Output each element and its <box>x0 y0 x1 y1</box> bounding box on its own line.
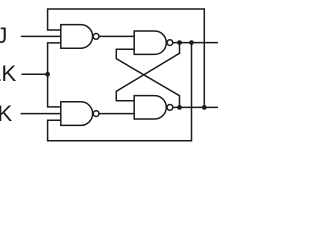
nand-gate G2 output bubble <box>93 111 99 117</box>
nand-gate G4 output bubble <box>167 105 173 111</box>
wire CLK rail up to G1 bottom input <box>48 43 61 74</box>
wire G2 output to G4 bottom input <box>99 113 134 115</box>
svg-text:J: J <box>0 23 7 48</box>
wire cross-couple Q to G4 top input <box>116 43 179 101</box>
node dot on Q-bar line at cross-couple takeoff <box>177 105 182 110</box>
nand-gate G1 body (top-left, 3-input) <box>61 25 93 49</box>
svg-text:CLK: CLK <box>0 61 16 86</box>
nand-gate G3 output bubble <box>167 40 173 46</box>
node CLK junction dot <box>45 72 50 77</box>
wire Q output line to right edge <box>173 42 218 44</box>
wire cross-couple Q-bar to G3 bottom input <box>116 49 179 107</box>
wire CLK to junction <box>22 73 48 75</box>
wire Q-bar output line to right edge <box>173 106 218 108</box>
wire bottom feedback from Q line down right side, across bottom, up to G2 bottom input <box>48 43 192 141</box>
wire K to gate G2 middle input <box>21 113 61 115</box>
nand-gate G2 body (bottom-left, 3-input) <box>61 102 93 126</box>
wire J to gate G1 middle input <box>21 35 61 37</box>
svg-text:K: K <box>0 101 12 126</box>
wire CLK rail down to G2 top input <box>48 74 61 107</box>
node dot on Q line at feedback takeoff <box>189 40 194 45</box>
nand-gate G4 body (bottom-right, 2-input) <box>134 96 166 119</box>
wire G1 output to G3 top input <box>99 35 134 37</box>
nand-gate G1 output bubble <box>93 34 99 40</box>
wire top feedback from Q-bar line up right side, across top, down to G1 top input <box>48 9 205 107</box>
node dot on Q-bar line at feedback takeoff <box>202 105 207 110</box>
nand-gate G3 body (top-right, 2-input) <box>134 31 166 54</box>
node dot on Q line at cross-couple takeoff <box>177 40 182 45</box>
